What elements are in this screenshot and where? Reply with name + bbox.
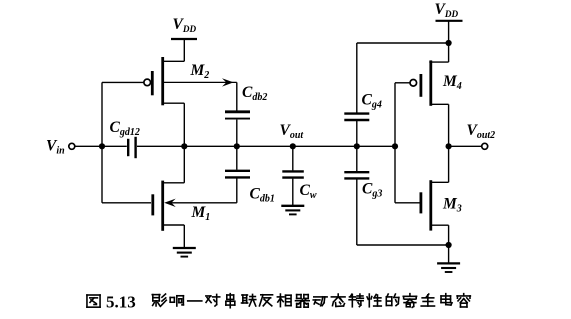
label Cg3 [362,181,382,200]
power VDD (left supply) [171,39,197,61]
capacitor Cdb2 [225,112,250,147]
label Cgd12 [110,119,140,138]
wire Vin to gate node [75,145,102,147]
wire ground stub [448,245,450,263]
junction Cg branch node [354,143,360,149]
label VDD right [435,1,459,19]
caption 图5.13 影响一对串联反相器动态特性的寄生电容 [87,293,470,312]
junction drain node inverter 1 [181,143,187,149]
wire output node segment 1 [184,145,237,147]
transistor M1 (NMOS) [102,181,163,231]
capacitor Cg3 [344,146,369,245]
wire M2 drain to output node [163,103,185,146]
wire Cg branch to gate bus [357,145,395,147]
capacitor Cgd12 [128,137,135,158]
wire M3 drain to Vout2 [431,146,449,182]
svg-text:5.13: 5.13 [106,293,136,312]
ground (below M1) [173,248,196,257]
wire top rail [357,42,449,44]
capacitor Cdb1 [225,146,250,177]
label Cdb2 [242,84,267,103]
junction gate node [99,143,105,149]
node Vout [290,143,296,149]
wire gate bus vertical (inverter 1) [101,82,103,202]
ground (below Cw) [281,206,304,215]
label M1 [191,204,211,223]
annotation arrow Cdb1 to M1 drain [164,178,237,207]
node input Vin [69,143,75,149]
transistor M3 (NMOS) [395,180,431,230]
label Cg4 [362,92,382,111]
node Vout2 junction [446,143,452,149]
label VDD left [173,16,197,34]
wire M4 drain to Vout2 [431,104,449,146]
transistor M4 (PMOS) [395,43,449,106]
power VDD (right supply) [436,21,463,43]
wire bottom rail [357,244,449,246]
transistor M2 (PMOS) [144,57,184,105]
wire M2 gate lead [102,81,144,83]
label Cdb1 [250,186,275,205]
label M4 [442,73,462,92]
junction gate bus node [392,143,398,149]
junction Cdb node [234,143,240,149]
annotation arrow M2 drain to Cdb2 [163,78,237,110]
wire M1 source lead [163,225,185,248]
wire M1 drain to output node [163,146,185,183]
wire gate node to Cgd12 [102,145,127,147]
ground (below M3) [437,263,460,272]
label Vout [280,122,305,141]
wire Cgd12 to drain node [137,145,184,147]
node output Vout2 [482,143,488,149]
label Vout2 [467,122,496,141]
capacitor Cg4 [344,43,369,146]
capacitor Cw [282,146,304,205]
label Vin [46,138,65,157]
wire Vout2 lead [449,145,482,147]
label M3 [442,196,462,215]
junction bottom rail [446,242,452,248]
wire output node segment 2 [237,145,293,147]
junction top rail [446,40,452,46]
wire Vout to Cg branch [293,145,357,147]
label Cw [300,182,317,201]
wire M3 source lead [431,225,449,245]
wire gate bus vertical (inverter 2) [394,83,396,203]
label M2 [190,62,210,81]
